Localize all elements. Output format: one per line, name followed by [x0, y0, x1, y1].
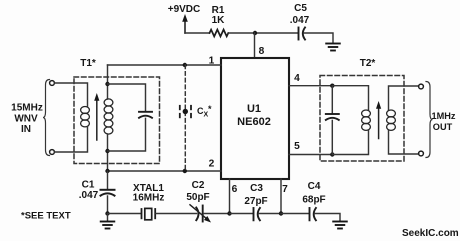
svg-text:WNV: WNV: [14, 114, 38, 125]
wire C4 to ground: [315, 214, 340, 221]
svg-text:SeekIC.com: SeekIC.com: [402, 228, 459, 239]
capacitor C5: [299, 28, 306, 40]
wire T1 cap bottom: [108, 118, 146, 151]
node C1 top junction: [105, 169, 109, 173]
wire pin 6: [229, 179, 231, 214]
wire pin 4: [289, 85, 332, 87]
wire C2 to pin6 node: [204, 213, 230, 215]
svg-text:C2: C2: [192, 180, 205, 191]
node T2 bottom junction: [330, 152, 334, 156]
capacitor T2 internal: [326, 86, 339, 155]
node T2 top junction: [330, 84, 334, 88]
svg-text:27pF: 27pF: [244, 196, 267, 207]
wire XTAL1 to C2: [156, 213, 197, 215]
svg-text:15MHz: 15MHz: [11, 103, 43, 114]
svg-text:.047: .047: [290, 15, 310, 26]
ground (C4): [333, 222, 347, 229]
svg-text:T1*: T1*: [80, 58, 96, 69]
wire T1 secondary riser to pin1 wire: [107, 65, 109, 99]
node C1 bottom junction: [105, 211, 109, 215]
input brace: [43, 80, 50, 156]
svg-text:1K: 1K: [212, 15, 226, 26]
wire pin 5: [289, 154, 332, 156]
svg-text:C4: C4: [308, 181, 321, 192]
svg-text:16MHz: 16MHz: [133, 193, 165, 204]
svg-text:68pF: 68pF: [302, 195, 325, 206]
svg-text:1: 1: [209, 56, 215, 67]
svg-text:+9VDC: +9VDC: [168, 4, 201, 15]
output terminal top: [419, 84, 424, 89]
svg-text:IN: IN: [21, 124, 31, 135]
svg-text:*: *: [208, 104, 212, 114]
svg-text:OUT: OUT: [433, 122, 453, 132]
T1 tuning arrow: [94, 93, 99, 140]
svg-text:C5: C5: [294, 3, 307, 14]
input terminal bottom: [50, 150, 55, 155]
Cx label: [197, 104, 212, 119]
svg-text:1MHz: 1MHz: [432, 111, 456, 121]
inductor T2 secondary winding: [387, 110, 396, 130]
svg-text:5: 5: [294, 141, 300, 152]
inductor T1 primary winding: [81, 107, 90, 127]
resistor R1: [210, 30, 229, 37]
wire supply to R1: [185, 32, 210, 34]
wire pin 8: [254, 33, 256, 58]
capacitor C3: [254, 208, 260, 220]
node Cx bottom junction: [183, 169, 187, 173]
capacitor Cx dashed branch: [180, 65, 191, 171]
transformer T1 dashed module box: [74, 77, 160, 164]
wire pin 7: [280, 179, 282, 214]
svg-text:T2*: T2*: [360, 58, 376, 69]
svg-text:C3: C3: [250, 183, 263, 194]
svg-text:6: 6: [232, 184, 238, 195]
output brace: [426, 82, 433, 158]
wire input top to T1 primary: [54, 83, 87, 106]
svg-text:.047: .047: [79, 190, 99, 201]
wire T1 primary to input bottom: [54, 127, 87, 152]
+9VDC supply arrow: [182, 14, 188, 33]
svg-text:7: 7: [282, 184, 288, 195]
node T1 secondary bottom: [105, 149, 109, 153]
wire T2 primary bottom: [332, 131, 368, 155]
capacitor C4: [310, 208, 316, 220]
svg-text:*SEE TEXT: *SEE TEXT: [21, 211, 71, 222]
transformer T2 dashed module box: [320, 76, 404, 162]
capacitor T1 internal: [139, 112, 152, 118]
svg-text:4: 4: [294, 73, 300, 84]
wire T2 secondary top: [389, 86, 419, 110]
wire C3 to pin7 node: [259, 213, 281, 215]
IC U1 NE602: [221, 58, 289, 179]
node pin8 junction: [253, 31, 257, 35]
svg-text:C1: C1: [82, 180, 95, 191]
input terminal top: [50, 81, 55, 86]
ground (C5): [326, 44, 340, 51]
wire pin 2: [108, 170, 222, 172]
svg-text:2: 2: [209, 159, 215, 170]
crystal XTAL1: [142, 208, 156, 219]
svg-text:U1: U1: [247, 103, 261, 115]
wire pin7 node to C4: [281, 213, 309, 215]
wire T2 primary top: [332, 86, 368, 110]
node T1 secondary top: [105, 82, 109, 86]
svg-text:8: 8: [259, 46, 265, 57]
wire pin 1: [108, 64, 222, 66]
wire pin6 node to C3: [230, 213, 253, 215]
wire R1 to C5: [228, 32, 297, 34]
wire C1 node to XTAL1: [108, 213, 141, 215]
output terminal bottom: [419, 151, 424, 156]
wire C5 to ground: [304, 33, 333, 42]
wire C1 node to ground: [107, 214, 109, 221]
capacitor C2 variable: [190, 205, 211, 223]
node pin6 junction: [227, 211, 231, 215]
T2 tuning arrow: [376, 101, 381, 139]
wire T1 secondary bottom: [107, 134, 109, 171]
inductor T2 primary winding: [362, 110, 371, 130]
ground (C1): [101, 222, 115, 229]
capacitor C1: [101, 171, 115, 214]
node Cx top junction: [183, 63, 187, 67]
node pin7 junction: [279, 211, 283, 215]
wire T1 cap top: [108, 84, 146, 111]
wire T2 secondary bottom: [389, 131, 419, 155]
inductor T1 secondary winding: [104, 99, 113, 134]
svg-text:50pF: 50pF: [186, 192, 209, 203]
svg-text:NE602: NE602: [237, 116, 271, 128]
